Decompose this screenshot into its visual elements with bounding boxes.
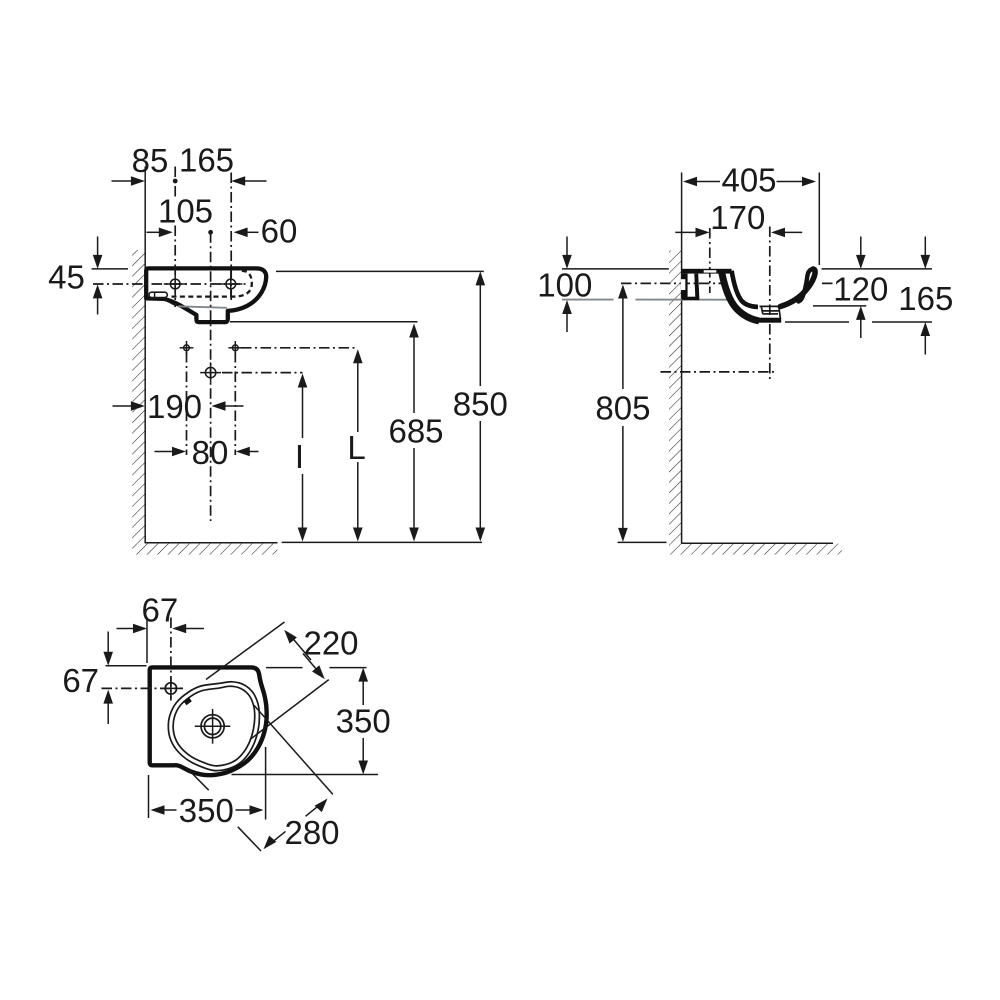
svg-text:120: 120	[833, 271, 888, 308]
diagonal tick T upper	[186, 767, 209, 790]
tap axis horizontal plan	[102, 687, 184, 689]
165 reference line	[785, 321, 849, 323]
dimension 67 left	[107, 632, 109, 655]
mounting hole right	[226, 279, 236, 289]
wall hatch left	[132, 250, 145, 544]
dimension 165 side	[924, 237, 926, 258]
bracket section	[682, 274, 688, 300]
dimension 685 line	[409, 324, 419, 338]
bowl inner wall left	[732, 271, 758, 307]
dimension 350 bottom	[151, 805, 165, 815]
overflow mark	[185, 700, 190, 704]
67 top extension	[146, 618, 148, 664]
dimension 100	[566, 237, 568, 258]
svg-text:190: 190	[147, 388, 202, 425]
220 arrow upper	[292, 638, 311, 661]
svg-text:105: 105	[158, 192, 213, 229]
wall face line right	[681, 173, 683, 544]
svg-text:165: 165	[179, 141, 234, 178]
svg-text:67: 67	[62, 662, 99, 699]
fixing tab front	[149, 292, 167, 297]
dimension 60	[234, 228, 248, 238]
svg-text:100: 100	[537, 267, 592, 304]
bowl inner plan	[173, 686, 255, 766]
685 reference line	[230, 321, 418, 323]
tap hole plan	[165, 683, 176, 694]
850 reference line	[276, 270, 484, 272]
gray 100 reference line	[562, 299, 614, 301]
dimension L line	[353, 349, 363, 363]
350 bottom extensions	[148, 775, 150, 818]
svg-text:I: I	[295, 438, 304, 475]
67 left extension	[106, 665, 147, 667]
hole centerline dash-dot side	[621, 282, 727, 284]
floor reference extension	[282, 541, 482, 543]
diagonal L4	[254, 705, 333, 794]
dimension 350 right line	[358, 668, 368, 682]
svg-text:220: 220	[303, 625, 358, 662]
bowl right wall outer run	[780, 269, 815, 306]
svg-text:80: 80	[192, 434, 229, 471]
diagonal L2	[250, 680, 329, 740]
dimension 405	[818, 173, 820, 266]
dimension 80	[155, 451, 175, 453]
dimension 85	[112, 180, 134, 182]
svg-text:850: 850	[453, 385, 508, 422]
tap axis side	[709, 228, 711, 293]
280 arrow upper	[306, 807, 318, 817]
svg-text:165: 165	[898, 280, 953, 317]
dimension 67 top	[117, 628, 137, 630]
svg-text:405: 405	[721, 162, 776, 199]
350 right ref top	[266, 667, 303, 669]
dimension 170	[675, 231, 696, 233]
svg-text:805: 805	[595, 389, 650, 426]
drain height dash-dot side	[661, 371, 775, 373]
centerline holes horizontal	[93, 283, 249, 285]
mounting hole left	[170, 279, 180, 289]
drain plan	[201, 715, 224, 738]
lower fixing cross left	[184, 345, 190, 351]
bowl outer plan	[168, 682, 259, 771]
floor reference left of wall	[618, 541, 667, 543]
dimension 190	[113, 405, 135, 407]
hidden bowl dashed line	[172, 271, 252, 297]
bowl right wall inner return	[799, 269, 813, 301]
svg-text:350: 350	[179, 792, 234, 829]
dimension 45	[97, 237, 99, 258]
basin outline front	[146, 268, 266, 322]
svg-text:60: 60	[261, 212, 298, 249]
svg-text:85: 85	[132, 142, 169, 179]
350 right ref bottom	[232, 774, 379, 776]
fixing height dash-dot line	[241, 347, 358, 349]
axis hole left vertical	[174, 167, 176, 198]
svg-text:685: 685	[388, 412, 443, 449]
rim reference line y269	[562, 268, 669, 270]
120 reference line	[813, 305, 866, 307]
dimension 805 line	[618, 285, 628, 299]
svg-text:350: 350	[336, 702, 391, 739]
drain steps side	[760, 305, 781, 307]
dimension I line	[298, 374, 308, 388]
svg-text:280: 280	[284, 814, 339, 851]
bowl outer wall left	[722, 273, 759, 321]
bowl far rim gray line	[178, 306, 227, 308]
dimension 120	[860, 237, 862, 258]
axis center vertical	[210, 232, 212, 521]
diagonal L1	[206, 622, 285, 680]
floor line front	[145, 542, 277, 544]
220 arrow lower	[303, 654, 317, 671]
basin section: rim bar	[682, 269, 732, 274]
drain cross front	[205, 367, 215, 377]
svg-text:45: 45	[48, 258, 85, 295]
floor hatch front	[132, 544, 277, 555]
bowl front edge thin	[164, 300, 176, 306]
wall hatch right	[669, 251, 682, 544]
svg-text:L: L	[347, 429, 365, 466]
drain height dash-dot line	[222, 372, 303, 374]
center axis side	[769, 227, 771, 380]
dimension 105	[147, 231, 162, 233]
basin plan outline	[150, 667, 267, 775]
floor hatch side	[669, 544, 842, 555]
dimension 165 top	[231, 176, 245, 186]
280 arrow lower	[274, 831, 286, 841]
tap axis vertical plan	[170, 618, 172, 701]
svg-text:67: 67	[142, 591, 179, 628]
drain bottom bar	[758, 318, 781, 323]
axis hole right vertical	[230, 173, 232, 303]
dimension 850 line	[476, 271, 486, 285]
floor line side	[682, 542, 833, 544]
diagonal tick T lower	[238, 827, 261, 851]
wall face line	[144, 167, 146, 544]
svg-text:170: 170	[710, 199, 765, 236]
lower fixing cross right	[232, 345, 238, 351]
tap hole slit	[704, 270, 717, 272]
